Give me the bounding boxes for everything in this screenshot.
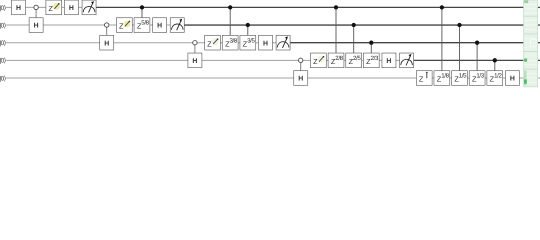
svg-text:H: H [104,40,109,47]
anticontrol q4 (col 16) [299,58,303,62]
wire q1 quantum segment [6,6,89,8]
Z^5/8 gate q2 (col 7) [134,18,150,33]
anticontrol q1 (col 1) [34,5,38,9]
output display (chance) q5 [524,69,538,87]
svg-text:Z: Z [419,75,424,84]
svg-text:2/8: 2/8 [335,55,343,62]
H gate q2 (col 8) [153,18,167,33]
Z^t dial gate q4 (col 17) [310,53,326,68]
output display (chance) q3 [524,34,538,52]
svg-text:H: H [263,40,268,47]
svg-text:2/5: 2/5 [353,55,361,62]
Z^2/3 gate q4 (col 20) [363,53,379,68]
wire q1 classical segment [89,6,523,8]
svg-text:H: H [192,58,197,65]
measurement gate q1 (col 4) [82,0,96,15]
H gate q1 (col 3) [64,0,78,15]
control dot q1 (col 24) [440,5,444,9]
anticontrol q3 (col 10) [193,41,197,45]
Z^1/8 gate q5 (col 24) [434,71,450,86]
control line column 5 (anticontrol q2 to H q3) [106,25,108,35]
control dot q1 (col 7) [140,5,144,9]
wire q5 right stub [538,77,540,79]
wire q2 classical segment [177,24,523,26]
control dot q3 (col 26) [475,41,479,45]
output display (chance) q2 [524,16,538,34]
control line column 25 (control q2 to Z q5) [459,25,461,71]
qubit label |0> q1 [0,5,6,12]
control dot q2 (col 13) [246,23,250,27]
Z^1/5 gate q5 (col 25) [452,71,468,86]
qubit label |0> q2 [0,22,6,29]
svg-text:|0⟩: |0⟩ [0,5,6,12]
H gate q5 (col 28) [505,71,519,86]
control dot q1 (col 12) [228,5,232,9]
control line column 16 (anticontrol q4 to H q5) [300,60,302,70]
H gate q3 (col 14) [258,35,272,50]
control line column 24 (control q1 to Z q5) [441,7,443,70]
control dot q1 (col 18) [334,5,338,9]
svg-text:|0⟩: |0⟩ [0,40,6,47]
control line column 19 (control q2 to Z q4) [353,25,355,53]
svg-text:3/8: 3/8 [229,37,237,44]
H gate q3 (col 5, anticontrolled) [100,35,114,50]
svg-text:H: H [386,58,391,65]
Z^t dial gate q2 (col 6) [116,18,132,33]
Z^t dial gate q1 (col 2) [46,0,62,15]
control line column 18 (control q1 to Z q4) [335,7,337,53]
control dot q4 (col 27) [493,58,497,62]
qubit label |0> q4 [0,58,6,65]
H gate q4 (col 21) [382,53,396,68]
wire q4 quantum segment [6,59,406,61]
svg-text:Z: Z [119,22,124,31]
output display (chance) q1 [524,0,538,16]
wire q4 right stub [538,59,540,61]
control line column 1 (anticontrol q1 to H q2) [35,7,37,17]
svg-text:Z: Z [207,39,212,48]
svg-text:H: H [157,23,162,30]
H gate q2 (col 1, anticontrolled) [29,18,43,33]
control line column 27 (control q4 to Z q5) [494,60,496,70]
control dot q2 (col 25) [457,23,461,27]
svg-text:5/8: 5/8 [141,20,149,27]
Z^t dial gate q5 (col 23) [416,71,432,86]
wire q5 [6,77,523,79]
svg-text:1/5: 1/5 [459,73,467,80]
svg-text:Z: Z [313,57,318,66]
wire q4 classical segment [407,59,524,61]
svg-text:2/3: 2/3 [371,55,379,62]
qubit label |0> q3 [0,40,6,47]
Z^3/5 gate q3 (col 13) [240,35,256,50]
output display (chance) q4 [524,52,538,70]
wire q3 right stub [538,42,540,44]
svg-text:H: H [34,23,39,30]
H gate q5 (col 16, anticontrolled) [294,71,308,86]
control line column 20 (control q3 to Z q4) [370,43,372,53]
measurement gate q2 (col 9) [170,18,184,33]
qubit label |0> q5 [0,75,6,82]
measurement gate q4 (col 22) [400,53,414,68]
H gate q1 (col 0) [12,0,26,15]
svg-text:1/2: 1/2 [494,73,502,80]
Z^2/8 gate q4 (col 18) [328,53,344,68]
control dot q3 (col 20) [369,41,373,45]
control line column 10 (anticontrol q3 to H q4) [194,43,196,53]
svg-text:H: H [69,5,74,12]
wire q1 right stub [538,6,540,8]
svg-text:Z: Z [48,4,53,13]
measurement gate q3 (col 15) [276,35,290,50]
H gate q4 (col 10, anticontrolled) [188,53,202,68]
control dot q2 (col 19) [352,23,356,27]
svg-text:3/5: 3/5 [247,37,255,44]
svg-text:|0⟩: |0⟩ [0,58,6,65]
svg-text:H: H [298,76,303,83]
control line column 26 (control q3 to Z q5) [476,43,478,71]
anticontrol q2 (col 5) [105,23,109,27]
svg-text:|0⟩: |0⟩ [0,75,6,82]
wire q3 classical segment [283,42,523,44]
Z^t dial gate q3 (col 11) [205,35,221,50]
svg-text:H: H [16,5,21,12]
control line column 13 (control q2 to Z q3) [247,25,249,35]
svg-text:H: H [510,76,515,83]
svg-text:|0⟩: |0⟩ [0,22,6,29]
control line column 7 (control q1 to Z q2) [141,7,143,17]
Z^3/8 gate q3 (col 12) [222,35,238,50]
wire q3 quantum segment [6,42,283,44]
Z^2/5 gate q4 (col 19) [346,53,362,68]
control line column 12 (control q1 to Z q3) [229,7,231,35]
Z^1/3 gate q5 (col 26) [469,71,485,86]
Z^1/2 gate q5 (col 27) [487,71,503,86]
svg-text:1/8: 1/8 [441,73,449,80]
wire q2 quantum segment [6,24,177,26]
svg-text:1/3: 1/3 [476,73,484,80]
wire q2 right stub [538,24,540,26]
